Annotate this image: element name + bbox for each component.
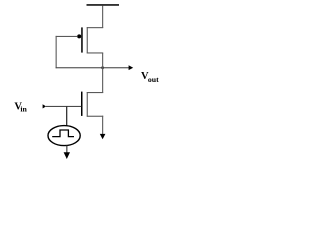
- transistor M2 drain lead: [87, 92, 103, 93]
- transistor M2 gate bar: [81, 92, 83, 116]
- wire: M1 gate horizontal: [56, 36, 78, 37]
- transistor M1 gate bar: [81, 27, 83, 52]
- transistor M1 channel bar: [87, 27, 88, 53]
- wire: loop bottom / Vout line: [56, 67, 129, 68]
- wire: VDD stem down to M1 drain: [102, 6, 103, 28]
- wire: M2 source down: [102, 116, 103, 134]
- Vout arrowhead: [129, 65, 134, 70]
- VDD supply rail bar: [87, 4, 120, 6]
- node: junction at output: [101, 66, 104, 69]
- wire: connector M1 source to M2 drain: [102, 53, 103, 93]
- node: M1 gate junction dot: [77, 34, 81, 38]
- transistor M2 channel bar: [87, 92, 88, 117]
- input arrowhead Vin: [43, 104, 47, 108]
- transistor M1 drain lead: [87, 27, 103, 28]
- svg-text:out: out: [148, 75, 159, 84]
- ground arrow (pulse source): [64, 152, 70, 159]
- wire: pulse source bottom lead: [66, 145, 67, 152]
- wire: loop left vertical: [56, 36, 57, 68]
- svg-text:in: in: [20, 104, 27, 113]
- pulse source V1: ellipse body: [48, 126, 80, 146]
- wire: tap down to pulse source: [66, 106, 67, 125]
- transistor M1 source lead: [87, 52, 103, 53]
- pulse source V1: pulse waveform: [52, 130, 74, 137]
- ground arrow (M2 source): [100, 134, 106, 139]
- wire: Vin to M2 gate: [46, 106, 81, 107]
- transistor M2 source lead: [87, 116, 103, 117]
